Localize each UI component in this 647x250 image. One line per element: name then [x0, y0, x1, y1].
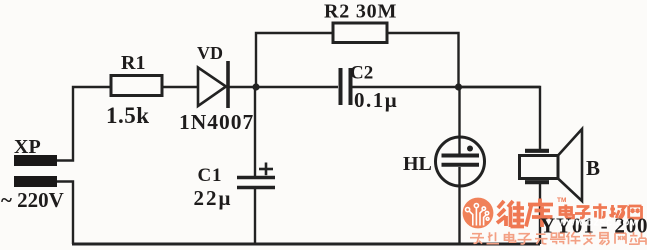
wire VD to node A — [229, 86, 338, 88]
capacitor C2 — [341, 68, 351, 105]
brand glyph chang — [610, 205, 626, 219]
brand glyph shi — [593, 204, 607, 219]
wire speaker B to bottom rail — [539, 184, 541, 244]
wire C2 to node B — [352, 86, 540, 88]
brand glyph wei — [497, 201, 524, 227]
wire R2 right to node B — [388, 33, 459, 87]
resistor R1 — [111, 76, 162, 96]
diode VD — [198, 61, 228, 108]
capacitor C1 plus sign — [259, 163, 273, 176]
slogan glyph zhuan — [470, 232, 646, 245]
capacitor C1 plates — [237, 178, 275, 188]
node B junction dot — [455, 83, 462, 90]
node A junction dot — [252, 83, 259, 90]
wire node B to speaker B — [459, 87, 541, 149]
lamp HL — [436, 137, 485, 186]
capacitor C1 vertical branch — [254, 87, 256, 176]
wire XP top prong to R1 — [57, 87, 110, 161]
plug XP — [14, 155, 57, 187]
brand glyph zi — [575, 207, 591, 218]
svg-text:TM: TM — [557, 197, 566, 204]
wire bottom rail — [72, 243, 540, 246]
resistor R2 — [333, 23, 387, 43]
speaker B — [520, 129, 583, 201]
brand glyph wang — [629, 206, 642, 219]
svg-text:WWW.DZSC.COM: WWW.DZSC.COM — [558, 218, 638, 228]
watermark logo circle — [463, 198, 494, 229]
wire node B down to lamp HL — [458, 87, 460, 155]
wire R2 branch left vertical — [256, 33, 332, 87]
wire lamp HL to bottom rail — [458, 167, 460, 244]
wire XP bottom prong down to bottom rail — [57, 182, 73, 245]
brand glyph ku — [526, 199, 553, 228]
wire R1 to VD — [162, 86, 197, 88]
brand glyph dian — [560, 205, 574, 218]
wire C1 to bottom rail — [254, 189, 256, 244]
